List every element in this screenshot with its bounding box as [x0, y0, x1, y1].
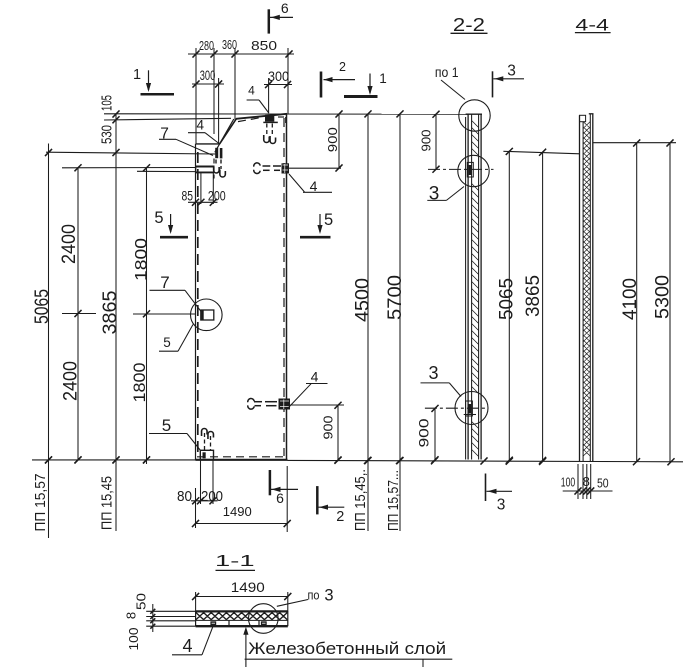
svg-text:6: 6 [276, 490, 284, 506]
callout 4 (right lower embed) [289, 384, 312, 408]
svg-text:3: 3 [429, 184, 440, 205]
detail circle item 3 upper (2-2) [458, 155, 489, 186]
left dim line 5065 [48, 144, 50, 539]
detail circle item 3 lower (2-2) [455, 392, 488, 425]
extension line top (4-4) [593, 142, 676, 144]
section mark 6 top [268, 9, 271, 33]
svg-text:900: 900 [416, 419, 431, 448]
dim 1490 (1-1) [195, 592, 197, 612]
svg-text:ПП 15,45: ПП 15,45 [100, 476, 116, 530]
slab joints (1-1) [228, 620, 230, 626]
svg-text:ПП 15,45,.: ПП 15,45,. [353, 469, 369, 531]
2-2 concrete hatch [472, 121, 479, 457]
svg-text:50: 50 [597, 476, 609, 491]
svg-text:100: 100 [561, 475, 575, 490]
svg-text:3: 3 [507, 63, 516, 80]
svg-text:2400: 2400 [59, 224, 80, 264]
4-4 top cap [580, 115, 586, 121]
dimension 300 right [264, 84, 292, 86]
svg-text:1800: 1800 [130, 363, 149, 403]
svg-text:1: 1 [379, 71, 387, 86]
extension line y=152.5 [46, 152, 216, 154]
svg-text:5065: 5065 [32, 289, 53, 324]
4-4 panel section outline [579, 115, 581, 461]
left dims 50/8/100 (1-1) [146, 610, 195, 612]
svg-text:ПП 15,57...: ПП 15,57... [386, 470, 402, 531]
axis line of lower embed (2-2) [425, 407, 485, 409]
svg-text:4: 4 [310, 178, 318, 194]
right dim line 5065 (2-2) [508, 151, 510, 461]
right dim line 3865 (2-2) [542, 152, 544, 461]
right dim line 5700 [399, 114, 401, 532]
svg-text:900: 900 [326, 127, 340, 152]
dim 900 bottom (2-2) [434, 408, 436, 459]
svg-text:3: 3 [428, 363, 438, 383]
dim 900 bottom right [337, 405, 339, 460]
right dim line 4100 (4-4) [636, 143, 638, 462]
right dim line 4500 [367, 114, 369, 532]
dims 100/8/50 (4-4) [577, 464, 579, 499]
svg-text:530: 530 [98, 125, 115, 144]
svg-text:4500: 4500 [352, 278, 373, 322]
2-2 panel section outline [465, 117, 467, 460]
svg-text:7: 7 [160, 126, 169, 143]
section mark 6 bottom [269, 470, 272, 495]
left dim line 1800/1800 [146, 167, 148, 464]
svg-text:по 1: по 1 [435, 64, 459, 80]
svg-text:3: 3 [497, 497, 506, 514]
svg-text:5065: 5065 [496, 278, 517, 320]
svg-text:5: 5 [324, 211, 333, 229]
embed item 5 bottom [200, 450, 213, 459]
embed item 4 right edge lower [279, 399, 291, 410]
svg-text:5700: 5700 [385, 275, 406, 320]
svg-text:3865: 3865 [100, 291, 121, 335]
axis line of upper embed (2-2) [428, 168, 494, 170]
svg-text:200: 200 [208, 188, 226, 204]
svg-text:105: 105 [98, 95, 115, 111]
second top extension line y=119 [104, 118, 231, 120]
left dim line 105/530/3865 [115, 114, 117, 531]
svg-text:900: 900 [322, 415, 336, 439]
detail circle item 7 mid-left [191, 299, 223, 331]
embed plate item 7 (notch block) [196, 166, 215, 168]
notch shoulder [196, 143, 221, 145]
extension line top of 2-2 dims [503, 151, 580, 154]
detail circle top (по 1) [459, 100, 490, 131]
svg-text:3: 3 [324, 587, 333, 605]
svg-text:8: 8 [583, 474, 590, 489]
svg-text:100: 100 [126, 628, 141, 651]
dimension 300 left [192, 83, 224, 85]
extension lines to notch block [62, 167, 196, 169]
svg-text:50: 50 [134, 593, 149, 610]
svg-text:300: 300 [268, 69, 289, 84]
svg-text:80: 80 [177, 488, 192, 505]
svg-text:8: 8 [124, 612, 139, 619]
dim 1490 [195, 488, 197, 528]
svg-text:6: 6 [281, 0, 289, 16]
svg-text:2: 2 [339, 60, 346, 74]
svg-text:2: 2 [336, 509, 344, 525]
embed plates in slab (1-1) [210, 621, 216, 625]
section mark 3 top (2-2) [492, 71, 494, 97]
notch diagonal (outer) [220, 119, 237, 144]
left dim line 2400/2400 [77, 167, 79, 460]
panel bottom edge [196, 459, 288, 461]
svg-text:85: 85 [182, 188, 194, 204]
dim 900 top right [338, 114, 340, 169]
svg-text:Железобетонный слой: Железобетонный слой [248, 639, 446, 658]
svg-text:300: 300 [200, 68, 216, 83]
svg-text:1490: 1490 [231, 579, 265, 595]
callout 4 (right upper embed) [289, 174, 305, 192]
svg-text:5300: 5300 [652, 275, 673, 319]
svg-text:2-2: 2-2 [453, 15, 485, 35]
insulation diamond hatch (1-1) [196, 613, 287, 620]
4-4 cross hatch [583, 122, 590, 457]
svg-text:3865: 3865 [523, 275, 544, 317]
svg-text:900: 900 [420, 129, 434, 151]
panel top edge [236, 114, 287, 119]
section mark 3 bottom (2-2) [485, 474, 487, 502]
dim 85/200 at notch [200, 172, 202, 204]
svg-text:1-1: 1-1 [215, 553, 255, 570]
section mark 2 bottom [316, 486, 319, 514]
svg-text:5: 5 [162, 416, 171, 435]
svg-text:ПП 15,57: ПП 15,57 [33, 474, 49, 532]
slab outline (1-1) [196, 610, 288, 612]
detail circle по 3 (1-1) [248, 604, 278, 634]
dim 900 top (2-2) [435, 114, 437, 170]
svg-text:280: 280 [199, 39, 214, 53]
anchor item 4 at notch [215, 148, 218, 158]
svg-text:4: 4 [311, 369, 319, 385]
notch inner dashed edge [213, 159, 215, 179]
svg-text:5: 5 [163, 335, 171, 350]
svg-text:7: 7 [160, 273, 169, 292]
svg-text:2400: 2400 [60, 361, 81, 401]
svg-text:1: 1 [133, 67, 141, 83]
svg-text:по: по [308, 588, 320, 603]
top dimension line 280/360/850 [188, 53, 294, 55]
panel right edge [286, 114, 288, 460]
svg-text:4100: 4100 [620, 278, 641, 320]
bottom extension line right [288, 460, 683, 461]
svg-text:4: 4 [182, 636, 192, 656]
embed item 4 right edge upper [282, 163, 290, 173]
svg-text:200: 200 [201, 488, 223, 505]
right dim line 5300 (4-4) [669, 143, 671, 462]
svg-text:5: 5 [154, 209, 163, 227]
svg-text:850: 850 [251, 39, 277, 53]
leader arrow to slab (1-1) [245, 630, 247, 667]
notch diagonal (inner) [215, 119, 234, 152]
extension verticals of top dims [195, 48, 197, 144]
top extension line y=113.6 [104, 113, 468, 115]
stub below underline [422, 659, 424, 667]
embed item 4 top centre [265, 115, 274, 122]
svg-text:4: 4 [248, 83, 255, 97]
bottom extension line left [32, 459, 196, 461]
svg-text:4: 4 [197, 118, 205, 133]
svg-text:4-4: 4-4 [575, 16, 609, 34]
svg-text:1490: 1490 [223, 504, 252, 519]
panel left edge [195, 144, 197, 460]
svg-text:1800: 1800 [132, 238, 151, 281]
dim 80/200 bottom [200, 460, 202, 504]
